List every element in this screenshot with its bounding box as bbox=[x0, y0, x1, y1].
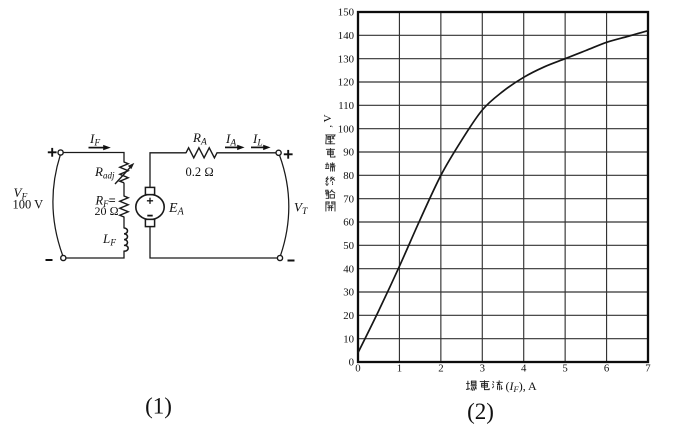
y tick labels bbox=[338, 7, 354, 369]
x tick labels bbox=[355, 363, 651, 375]
svg-text:5: 5 bbox=[562, 363, 567, 375]
svg-text:100: 100 bbox=[338, 123, 354, 135]
svg-text:30: 30 bbox=[343, 287, 354, 299]
wire armature left top lead bbox=[150, 153, 186, 188]
polarity marks inside EA bbox=[147, 198, 153, 216]
svg-text:1: 1 bbox=[397, 363, 402, 375]
svg-text:3: 3 bbox=[480, 363, 485, 375]
current arrow IL bbox=[251, 145, 271, 150]
svg-text:100 V: 100 V bbox=[13, 198, 44, 212]
wire field bottom bbox=[66, 251, 124, 258]
x axis title bbox=[466, 381, 502, 391]
svg-text:140: 140 bbox=[338, 30, 354, 42]
machine EA (armature) bbox=[136, 187, 164, 226]
wire field mid R_adj to R_F bbox=[123, 183, 125, 196]
svg-text:6: 6 bbox=[604, 363, 610, 375]
svg-text:120: 120 bbox=[338, 77, 354, 89]
svg-text:130: 130 bbox=[338, 53, 354, 65]
svg-text:2: 2 bbox=[438, 363, 443, 375]
wire field top bbox=[63, 153, 124, 163]
svg-text:40: 40 bbox=[343, 263, 354, 275]
minus sign VF bbox=[46, 259, 53, 261]
svg-text:0: 0 bbox=[349, 357, 354, 369]
svg-text:, V: , V bbox=[322, 114, 334, 127]
svg-text:IA: IA bbox=[225, 131, 236, 149]
wire field R_F to L_F bbox=[123, 217, 125, 228]
arrow head of Radj bbox=[128, 163, 134, 169]
svg-text:IL: IL bbox=[252, 131, 263, 149]
svg-text:50: 50 bbox=[343, 240, 354, 252]
minus sign VT bbox=[288, 260, 295, 262]
svg-text:7: 7 bbox=[645, 363, 651, 375]
terminal + (VT top) bbox=[276, 150, 281, 155]
svg-text:80: 80 bbox=[343, 170, 354, 182]
current arrow IA bbox=[225, 145, 245, 150]
wire armature bottom bbox=[150, 227, 277, 258]
svg-text:(2): (2) bbox=[467, 399, 494, 424]
svg-text:EA: EA bbox=[168, 201, 185, 218]
svg-text:20 Ω: 20 Ω bbox=[95, 204, 119, 218]
source VF lead curve (left) bbox=[53, 155, 63, 255]
resistor RA 0.2 ohm bbox=[186, 148, 217, 158]
svg-text:10: 10 bbox=[343, 333, 354, 345]
svg-text:IF: IF bbox=[89, 131, 100, 149]
plus sign VT bbox=[284, 150, 293, 159]
svg-text:0: 0 bbox=[355, 363, 360, 375]
inductor LF bbox=[124, 228, 128, 251]
svg-text:150: 150 bbox=[338, 7, 354, 19]
svg-text:Radj: Radj bbox=[94, 164, 115, 181]
svg-text:110: 110 bbox=[338, 100, 354, 112]
svg-text:(1): (1) bbox=[145, 394, 172, 419]
svg-text:(IF), A: (IF), A bbox=[506, 379, 538, 394]
plot border bbox=[358, 12, 648, 362]
svg-text:LF: LF bbox=[102, 231, 116, 249]
svg-text:0.2 Ω: 0.2 Ω bbox=[186, 165, 214, 179]
resistor RF 20 ohm bbox=[120, 196, 128, 217]
terminal - (VT bottom) bbox=[277, 255, 282, 260]
svg-text:RA: RA bbox=[192, 130, 207, 148]
svg-text:90: 90 bbox=[343, 147, 354, 159]
resistor Radj (adjustable, field rheostat) bbox=[115, 162, 131, 184]
svg-text:4: 4 bbox=[521, 363, 527, 375]
svg-text:VT: VT bbox=[294, 200, 308, 218]
plus sign VF bbox=[48, 148, 57, 157]
svg-text:70: 70 bbox=[343, 193, 354, 205]
svg-text:60: 60 bbox=[343, 217, 354, 229]
magnetization curve bbox=[358, 31, 648, 353]
wire armature top right bbox=[217, 152, 276, 154]
current arrow IF bbox=[89, 145, 111, 150]
terminal - (field bottom) bbox=[61, 255, 66, 260]
terminal + (field top) bbox=[58, 150, 63, 155]
svg-text:20: 20 bbox=[343, 310, 354, 322]
y axis title (vertical CJK) bbox=[326, 135, 336, 211]
load VT lead curve (right) bbox=[280, 156, 289, 256]
